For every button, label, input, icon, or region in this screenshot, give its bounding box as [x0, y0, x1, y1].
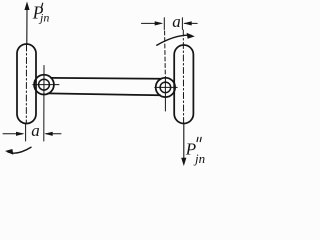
svg-text:jn: jn: [193, 151, 205, 166]
svg-text:a: a: [172, 12, 181, 31]
svg-text:a: a: [31, 121, 40, 140]
svg-text:jn: jn: [38, 11, 49, 25]
